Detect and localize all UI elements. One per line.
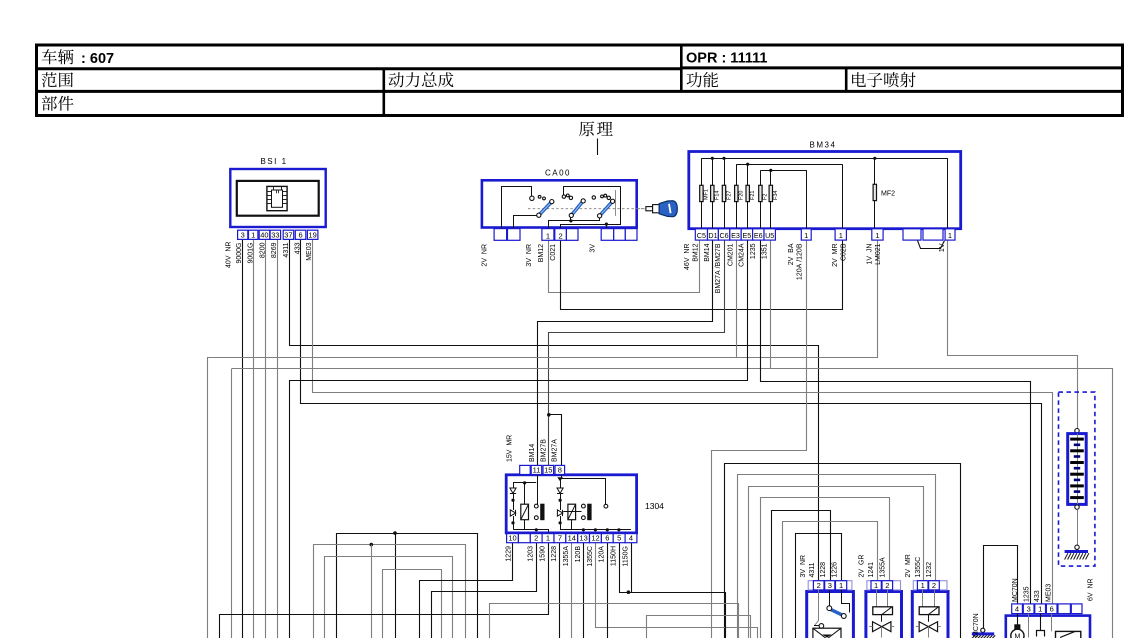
CA00 ignition switch <box>482 169 645 229</box>
wire CM201/LM021 bus <box>208 241 878 639</box>
svg-text:3: 3 <box>828 581 832 590</box>
header cell: component <box>42 96 74 111</box>
svg-text:2V BA: 2V BA <box>788 243 795 265</box>
wire bridge A <box>337 534 478 639</box>
svg-text:3V NR: 3V NR <box>800 555 807 578</box>
BM34 pin 1 (C02B) <box>835 229 846 240</box>
wire MC70N pin 4 to ground <box>984 546 1018 629</box>
MC70N idle stepper unit box <box>1006 616 1090 643</box>
wire bridge C <box>325 557 453 639</box>
wire 9001G (BSI pin 1) <box>253 239 255 638</box>
svg-text:6V NR: 6V NR <box>1088 578 1095 601</box>
svg-text:1V: 1V <box>939 243 946 252</box>
svg-text:1: 1 <box>839 231 843 240</box>
svg-text:3V: 3V <box>590 244 597 253</box>
svg-text:8: 8 <box>558 466 562 475</box>
svg-text:1229: 1229 <box>505 546 512 562</box>
BM34 pin 1 (1V) <box>945 229 955 240</box>
svg-text:33: 33 <box>271 230 279 239</box>
svg-text:1150H: 1150H <box>611 546 618 566</box>
wire bridge A branch <box>395 533 397 638</box>
svg-text:8200: 8200 <box>259 242 266 258</box>
header cell: electronic injection <box>852 72 915 87</box>
svg-text:MC70N: MC70N <box>1012 578 1019 602</box>
CA00 wire labels <box>482 244 597 267</box>
svg-text:1150G: 1150G <box>622 546 629 567</box>
svg-text:2: 2 <box>534 534 538 543</box>
svg-text:2: 2 <box>817 581 821 590</box>
svg-text:1232: 1232 <box>926 562 933 578</box>
svg-text:1304: 1304 <box>645 501 664 511</box>
1304 bottom pin row <box>507 534 637 543</box>
svg-text:CM201: CM201 <box>728 243 735 266</box>
relay K1 of 1304 <box>510 475 549 533</box>
wire 1150H (1304 pin 5) <box>620 543 726 639</box>
wire BM12 (CA00 pin 1 to BM34 pin C5) <box>549 241 700 293</box>
svg-text:BM12: BM12 <box>538 244 545 262</box>
wire CM24A (BM34 pin E5 to bottom) <box>290 241 748 639</box>
svg-text:MC70N: MC70N <box>973 613 980 637</box>
svg-text:OPR : 11111: OPR : 11111 <box>686 51 767 67</box>
svg-text:C02B: C02B <box>841 243 848 261</box>
wire bridge F <box>647 616 751 639</box>
MC70N pin row 4 3 1 6 <box>1012 604 1082 614</box>
svg-text:1355C: 1355C <box>915 557 922 578</box>
svg-text:120A: 120A <box>599 546 606 563</box>
1304 top labels <box>507 435 559 462</box>
wire link 724 drop <box>724 463 726 638</box>
svg-text:F20: F20 <box>739 191 745 200</box>
BM34 wire labels <box>684 243 946 293</box>
svg-text:1: 1 <box>948 231 952 240</box>
svg-text:19: 19 <box>308 230 316 239</box>
svg-text:C5: C5 <box>697 231 706 240</box>
wire 1355C (1304 pin 12) <box>596 543 758 639</box>
component 1221 solenoid valve labels <box>905 554 933 577</box>
wire 1355C (to component 1221 pin 1) <box>749 487 924 639</box>
svg-text:6: 6 <box>299 230 303 239</box>
svg-text:2: 2 <box>932 581 936 590</box>
header cell: function <box>687 72 718 87</box>
component 8007 labels <box>800 555 838 578</box>
component 8007 internals <box>813 590 850 641</box>
svg-text:46V NR: 46V NR <box>684 244 691 270</box>
svg-text:C021: C021 <box>550 244 557 261</box>
ignition key symbol <box>638 201 678 217</box>
svg-text:ME03: ME03 <box>306 242 313 260</box>
svg-text:BM27B: BM27B <box>541 439 548 462</box>
svg-text:40V NR: 40V NR <box>226 242 233 268</box>
wire 9000G (BSI pin 3) <box>242 239 244 638</box>
svg-text:M: M <box>1014 634 1020 639</box>
header cell: vehicle 607 <box>42 49 114 67</box>
svg-text:4311: 4311 <box>809 562 816 577</box>
svg-text:433: 433 <box>295 242 302 254</box>
svg-text:2V GR: 2V GR <box>858 555 865 578</box>
component 1220 canister purge valve labels <box>858 555 886 578</box>
svg-text:10: 10 <box>508 534 516 543</box>
wire 433 (BSI pin 6 to MC70N pin 1) <box>301 240 1042 605</box>
wire bridge B branch <box>371 545 373 638</box>
svg-text:6: 6 <box>1050 605 1054 614</box>
wire ME03 (BSI pin 19 to MC70N pin 6) <box>313 240 1053 605</box>
dashed enclosure 1V ballast <box>1059 392 1095 566</box>
MC70N throttle icon <box>1052 614 1081 641</box>
relay K2 of 1304 <box>557 475 631 532</box>
svg-text:1235: 1235 <box>750 243 757 259</box>
BM34 pin 1 (120A/120B) <box>801 229 811 240</box>
wire BM27A (branch to 1304 pin 8) <box>549 415 562 466</box>
BM34 fuse MF2 <box>873 158 895 228</box>
BM34 blank pins and connector funnel <box>903 229 945 249</box>
wire 4311 (BSI pin 37 to component 8007 pin 2) <box>290 240 819 581</box>
header cell: powertrain <box>389 72 454 87</box>
svg-text:3V NR: 3V NR <box>526 244 533 267</box>
wire 1232 (to component 1221 pin 2) <box>738 475 936 639</box>
svg-text:CA00: CA00 <box>545 169 571 178</box>
component 1220 canister purge valve box <box>866 592 902 643</box>
component 8007 throttle switch box <box>807 592 854 643</box>
svg-text:F34: F34 <box>773 191 779 200</box>
svg-text:2V MR: 2V MR <box>905 554 912 577</box>
wire 1235 (BM34 pin E6 to MC70N pin 3) <box>761 241 1031 605</box>
wire 120A (1304 pin 6) <box>607 543 609 638</box>
svg-text:1351: 1351 <box>762 243 769 259</box>
svg-text:E3: E3 <box>731 231 740 240</box>
wire 1203 (1304 pin 2) <box>432 543 537 639</box>
svg-text:4311: 4311 <box>283 242 290 257</box>
svg-text:1228: 1228 <box>551 546 558 562</box>
MC70N pin 3 internal wire <box>1028 614 1030 638</box>
svg-text:2: 2 <box>885 581 889 590</box>
svg-text:F2: F2 <box>763 194 769 200</box>
ballast resistor element <box>1068 429 1087 550</box>
svg-text:: 607: : 607 <box>77 51 114 67</box>
svg-text:1226: 1226 <box>831 562 838 578</box>
svg-text:2: 2 <box>559 231 563 240</box>
component 1221 solenoid valve pin row 1 2 <box>913 581 947 590</box>
BM34 fuses row <box>700 158 779 228</box>
svg-text:1: 1 <box>875 231 879 240</box>
wire BM27B (BM34 pin C6 to 1304 pin 15) <box>549 241 725 466</box>
svg-text:9000G: 9000G <box>236 243 243 264</box>
1304 bottom wire labels <box>505 546 629 567</box>
MC70N motor <box>1011 614 1024 643</box>
svg-text:BSI 1: BSI 1 <box>260 157 287 166</box>
svg-text:BM27A: BM27A <box>552 439 559 462</box>
svg-text:1355A: 1355A <box>880 557 887 578</box>
svg-text:1355A: 1355A <box>563 546 570 567</box>
svg-text:3: 3 <box>1027 605 1031 614</box>
svg-text:4: 4 <box>629 534 633 543</box>
svg-text:5: 5 <box>617 534 621 543</box>
wire bridge E <box>490 604 739 639</box>
wire 120A/120B (BM34 to bottom) <box>712 241 807 639</box>
wire CM201 branch (BM34 pin E3) <box>736 240 738 357</box>
svg-text:MF2: MF2 <box>881 191 895 198</box>
svg-text:15: 15 <box>544 466 552 475</box>
svg-text:1: 1 <box>804 231 808 240</box>
wire 1351 left strand <box>231 369 233 639</box>
wire 1355A (1304 pin 14) <box>571 543 573 638</box>
MC70N flap contact <box>1037 614 1045 637</box>
svg-text:3: 3 <box>241 230 245 239</box>
wire 1355A (to component 1220 pin 2) <box>761 498 890 639</box>
svg-text:U5: U5 <box>765 231 774 240</box>
svg-text:E6: E6 <box>754 231 763 240</box>
wire 1228 (to component 8007 pin 3) <box>772 511 831 639</box>
svg-text:C6: C6 <box>719 231 728 240</box>
svg-text:1241: 1241 <box>868 562 875 578</box>
svg-text:6: 6 <box>605 534 609 543</box>
wire link 724 <box>725 464 961 639</box>
component 1220 canister purge valve coil and valve <box>869 590 894 638</box>
header cell: OPR 11111 <box>686 51 767 67</box>
svg-text:1: 1 <box>839 581 843 590</box>
svg-text:BM34: BM34 <box>810 141 837 150</box>
component 1221 solenoid valve coil and valve <box>916 590 941 638</box>
svg-text:1228: 1228 <box>820 562 827 578</box>
BSI1 body module <box>230 157 325 227</box>
svg-text:13: 13 <box>579 534 587 543</box>
wire BM14 (BM34 pin D1 to 1304 pin 11) <box>538 241 713 466</box>
svg-text:F21: F21 <box>750 191 756 200</box>
wire 8200 (BSI pin 40) <box>265 239 267 638</box>
wire 1351 (BM34 pin U5 to lower right) <box>771 241 1113 639</box>
svg-text:1: 1 <box>546 534 550 543</box>
BSI1 pin row 3 1 40 33 37 6 19 <box>238 230 318 239</box>
wire 120B (1304 pin 13) <box>583 543 585 638</box>
wire 1228 (1304 pin 7) <box>559 543 561 638</box>
svg-text:BM27A /BM27B: BM27A /BM27B <box>715 243 722 293</box>
wire 1351 left horizontal <box>232 368 771 370</box>
svg-text:120B: 120B <box>575 546 582 563</box>
header table frame <box>36 45 1123 116</box>
BSI1 wire labels <box>226 242 314 268</box>
svg-text:BM12: BM12 <box>693 243 700 261</box>
ground MC70N <box>972 628 995 638</box>
wire 1241 (to component 1220 pin 1) <box>783 522 878 639</box>
svg-text:40: 40 <box>260 230 268 239</box>
svg-text:2V MR: 2V MR <box>832 244 839 267</box>
header cell: scope <box>42 72 73 87</box>
svg-text:2V NR: 2V NR <box>482 244 489 267</box>
svg-text:ME03: ME03 <box>1046 584 1053 602</box>
svg-text:MF1: MF1 <box>704 189 710 200</box>
svg-text:7: 7 <box>558 534 562 543</box>
svg-text:8269: 8269 <box>271 242 278 258</box>
svg-text:1: 1 <box>874 581 878 590</box>
svg-text:1: 1 <box>921 581 925 590</box>
svg-text:D1: D1 <box>708 231 717 240</box>
svg-text:12: 12 <box>591 534 599 543</box>
svg-text:1: 1 <box>546 231 550 240</box>
svg-text:4: 4 <box>1015 605 1019 614</box>
svg-text:F27: F27 <box>726 191 732 200</box>
svg-text:1355C: 1355C <box>587 546 594 567</box>
svg-text:15V MR: 15V MR <box>507 435 514 462</box>
wire bridge D <box>383 570 442 639</box>
svg-text:11: 11 <box>533 466 541 475</box>
junction bridge A node <box>393 531 397 535</box>
svg-text:BM14: BM14 <box>704 243 711 261</box>
ground ballast <box>1065 550 1089 560</box>
CA00 pin row <box>494 229 637 241</box>
svg-text:37: 37 <box>284 230 292 239</box>
svg-text:1590: 1590 <box>539 546 546 562</box>
svg-text:1: 1 <box>1038 605 1042 614</box>
svg-text:E5: E5 <box>743 231 752 240</box>
svg-text:LM021: LM021 <box>875 243 882 265</box>
1304 top pin row 11 15 8 <box>520 465 565 474</box>
svg-text:1: 1 <box>251 230 255 239</box>
wire 1226 (to component 8007 pin 1) <box>796 534 842 639</box>
label 6V NR <box>1088 578 1095 601</box>
svg-text:BM14: BM14 <box>529 444 536 462</box>
component 1221 solenoid valve box <box>912 592 948 643</box>
svg-text:1V JN: 1V JN <box>867 244 874 265</box>
MC70N labels <box>1012 578 1053 602</box>
label MC70N at ground <box>973 613 980 637</box>
svg-text:433: 433 <box>1034 590 1041 602</box>
title: principle <box>579 121 613 155</box>
wire bridge B <box>314 545 466 639</box>
junction BM27 node <box>547 413 551 417</box>
svg-text:CM24A: CM24A <box>739 243 746 267</box>
component 1220 canister purge valve pin row 1 2 <box>867 581 901 590</box>
wire 1150G (1304 pin 4) <box>631 543 633 593</box>
junction 1150 node <box>627 590 631 594</box>
BM34 internal feeds <box>807 158 948 228</box>
BM34 fuse box <box>689 141 961 229</box>
svg-text:9001G: 9001G <box>247 242 254 263</box>
wire 1590 (1304 pin 1) <box>220 543 549 639</box>
wire 1229 (1304 pin 10) <box>420 543 513 639</box>
component 8007 pin row 2 3 1 <box>808 581 852 590</box>
svg-text:1203: 1203 <box>528 546 535 562</box>
svg-text:14: 14 <box>568 534 576 543</box>
wire 8269 (BSI pin 33) <box>277 239 279 638</box>
svg-text:1235: 1235 <box>1023 586 1030 602</box>
BM34 pin 1 (LM021) <box>872 229 883 240</box>
svg-text:120A /120B: 120A /120B <box>797 243 804 280</box>
1304 double relay box <box>506 475 664 533</box>
wire 1V (BM34 to ballast) <box>948 241 1078 429</box>
junction bridge B node <box>370 543 374 547</box>
wire C021/C02B (CA00 pin 2 to BM34) <box>561 241 843 310</box>
svg-text:F14: F14 <box>715 191 721 200</box>
BM34 pin row C5 D1 C6 E3 E5 E6 U5 <box>695 229 775 240</box>
